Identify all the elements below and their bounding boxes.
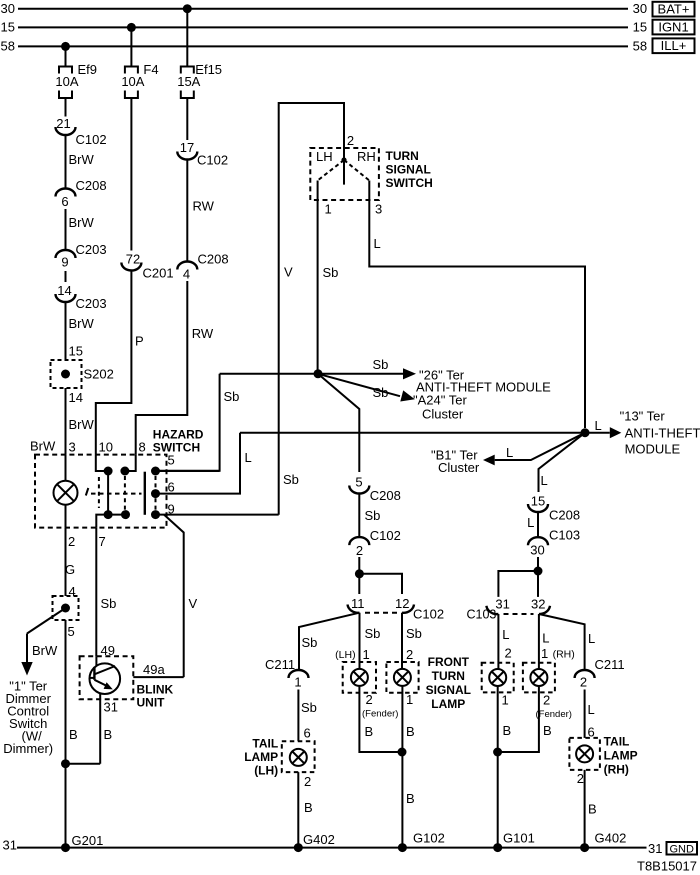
svg-text:LAMP: LAMP (604, 749, 638, 763)
svg-text:(LH): (LH) (254, 764, 278, 778)
svg-text:B: B (543, 723, 552, 738)
svg-text:30: 30 (1, 1, 15, 16)
svg-text:LAMP: LAMP (244, 750, 278, 764)
svg-text:V: V (189, 596, 198, 611)
svg-text:1: 1 (541, 646, 548, 661)
svg-text:(Fender): (Fender) (362, 709, 398, 720)
svg-text:Sb: Sb (224, 389, 240, 404)
svg-text:Sb: Sb (365, 508, 381, 523)
svg-text:Sb: Sb (373, 357, 389, 372)
svg-text:2: 2 (347, 133, 354, 148)
svg-text:TURN: TURN (432, 669, 465, 683)
svg-text:1: 1 (325, 202, 332, 217)
svg-text:C211: C211 (595, 657, 625, 672)
svg-text:9: 9 (61, 255, 68, 270)
svg-text:Sb: Sb (406, 626, 422, 641)
svg-text:(Fender): (Fender) (536, 709, 572, 720)
svg-text:G201: G201 (72, 833, 104, 848)
svg-text:7: 7 (99, 534, 106, 549)
svg-text:C201: C201 (143, 266, 174, 281)
svg-text:15: 15 (531, 494, 545, 509)
svg-text:G402: G402 (303, 832, 335, 847)
svg-text:"13" Ter: "13" Ter (620, 409, 666, 424)
svg-text:2: 2 (356, 543, 363, 558)
svg-text:BrW: BrW (69, 215, 95, 230)
svg-text:ANTI-THEFT: ANTI-THEFT (625, 426, 700, 441)
svg-text:32: 32 (531, 596, 545, 611)
svg-text:Cluster: Cluster (422, 407, 464, 422)
svg-text:B: B (104, 727, 113, 742)
svg-text:2: 2 (580, 675, 587, 690)
svg-text:B: B (304, 800, 313, 815)
svg-text:30: 30 (633, 1, 647, 16)
svg-text:L: L (542, 631, 549, 646)
svg-text:(LH): (LH) (335, 649, 355, 661)
svg-text:17: 17 (180, 140, 194, 155)
svg-text:L: L (527, 515, 534, 530)
svg-text:L: L (245, 450, 252, 465)
svg-text:14: 14 (69, 390, 83, 405)
svg-text:L: L (588, 702, 595, 717)
svg-text:RW: RW (193, 199, 215, 214)
svg-text:3: 3 (375, 202, 382, 217)
svg-text:Dimmer): Dimmer) (3, 741, 53, 756)
svg-text:L: L (588, 631, 595, 646)
svg-text:BrW: BrW (69, 316, 95, 331)
svg-text:FRONT: FRONT (428, 655, 470, 669)
svg-text:C208: C208 (370, 488, 401, 503)
svg-text:Sb: Sb (302, 635, 318, 650)
svg-text:6: 6 (304, 726, 311, 741)
svg-text:S202: S202 (84, 367, 114, 382)
svg-text:TURN: TURN (386, 149, 419, 163)
svg-text:2: 2 (406, 647, 413, 662)
svg-text:2: 2 (304, 774, 311, 789)
svg-text:6: 6 (61, 194, 68, 209)
svg-text:BrW: BrW (30, 439, 56, 454)
svg-text:1: 1 (406, 692, 413, 707)
svg-text:RW: RW (192, 326, 214, 341)
svg-text:2: 2 (543, 693, 550, 708)
svg-text:HAZARD: HAZARD (153, 428, 204, 442)
svg-text:C208: C208 (549, 508, 580, 523)
svg-text:BAT+: BAT+ (658, 2, 690, 17)
svg-text:49a: 49a (143, 662, 165, 677)
svg-text:T8B15017: T8B15017 (637, 859, 697, 874)
svg-text:L: L (506, 445, 513, 460)
svg-text:1: 1 (294, 675, 301, 690)
svg-text:V: V (284, 265, 293, 280)
svg-text:30: 30 (530, 543, 544, 558)
svg-text:5: 5 (168, 453, 175, 468)
svg-text:15: 15 (1, 20, 15, 35)
svg-text:SIGNAL: SIGNAL (386, 163, 431, 177)
svg-text:Cluster: Cluster (438, 460, 480, 475)
svg-text:31: 31 (3, 838, 17, 853)
svg-text:C211: C211 (265, 657, 295, 672)
svg-text:Sb: Sb (101, 596, 117, 611)
svg-text:LAMP: LAMP (431, 697, 465, 711)
svg-text:15A: 15A (177, 74, 200, 89)
svg-text:21: 21 (56, 116, 70, 131)
svg-text:C208: C208 (198, 252, 229, 267)
svg-text:SIGNAL: SIGNAL (426, 683, 471, 697)
svg-text:12: 12 (395, 596, 409, 611)
svg-text:Sb: Sb (323, 265, 339, 280)
svg-text:8: 8 (139, 440, 146, 455)
svg-text:6: 6 (168, 480, 175, 495)
svg-text:Sb: Sb (373, 385, 389, 400)
svg-text:31: 31 (104, 700, 118, 715)
svg-text:C103: C103 (467, 608, 497, 622)
svg-text:Sb: Sb (301, 700, 317, 715)
svg-text:3: 3 (69, 440, 76, 455)
svg-text:(RH): (RH) (604, 763, 629, 777)
svg-text:C102: C102 (413, 607, 444, 622)
svg-text:P: P (135, 334, 144, 349)
svg-text:B: B (406, 791, 415, 806)
svg-text:SWITCH: SWITCH (386, 176, 433, 190)
svg-text:31: 31 (648, 841, 662, 856)
svg-text:TAIL: TAIL (252, 737, 278, 751)
svg-text:72: 72 (126, 252, 140, 267)
svg-text:GND: GND (669, 843, 694, 855)
svg-text:Sb: Sb (283, 472, 299, 487)
svg-text:1: 1 (502, 693, 509, 708)
svg-text:58: 58 (1, 39, 15, 54)
svg-text:IGN1: IGN1 (658, 20, 688, 35)
svg-text:15: 15 (633, 20, 647, 35)
svg-text:1: 1 (363, 647, 370, 662)
svg-text:4: 4 (183, 267, 190, 282)
svg-text:10A: 10A (121, 74, 144, 89)
svg-text:Sb: Sb (365, 626, 381, 641)
svg-text:Ef9: Ef9 (78, 62, 98, 77)
svg-text:B: B (69, 727, 78, 742)
svg-text:B: B (503, 723, 512, 738)
svg-text:UNIT: UNIT (137, 696, 166, 710)
svg-text:L: L (541, 473, 548, 488)
svg-text:11: 11 (351, 596, 365, 611)
svg-text:F4: F4 (143, 62, 158, 77)
svg-text:G402: G402 (595, 831, 627, 846)
svg-text:SWITCH: SWITCH (153, 441, 200, 455)
svg-text:TAIL: TAIL (604, 735, 630, 749)
svg-text:C208: C208 (76, 178, 107, 193)
svg-text:G101: G101 (503, 831, 535, 846)
svg-text:2: 2 (68, 534, 75, 549)
svg-text:2: 2 (577, 771, 584, 786)
svg-text:2: 2 (505, 646, 512, 661)
svg-text:"A24" Ter: "A24" Ter (413, 393, 467, 408)
svg-text:L: L (374, 236, 381, 251)
svg-text:B: B (406, 724, 415, 739)
svg-text:14: 14 (57, 283, 71, 298)
svg-text:BrW: BrW (69, 152, 95, 167)
svg-text:5: 5 (355, 475, 362, 490)
svg-text:BrW: BrW (69, 417, 95, 432)
svg-text:MODULE: MODULE (625, 442, 681, 457)
svg-text:RH: RH (357, 149, 376, 164)
svg-text:C203: C203 (76, 296, 107, 311)
svg-text:G102: G102 (413, 831, 445, 846)
svg-text:C102: C102 (370, 528, 401, 543)
svg-text:5: 5 (68, 624, 75, 639)
svg-text:31: 31 (495, 597, 509, 612)
svg-text:L: L (595, 418, 602, 433)
svg-text:2: 2 (366, 692, 373, 707)
svg-text:C203: C203 (76, 242, 107, 257)
svg-text:G: G (65, 562, 75, 577)
svg-text:58: 58 (633, 39, 647, 54)
svg-text:ILL+: ILL+ (661, 38, 687, 53)
svg-text:10: 10 (99, 440, 113, 455)
svg-text:(RH): (RH) (553, 649, 575, 661)
svg-text:LH: LH (316, 149, 333, 164)
svg-text:10A: 10A (55, 74, 78, 89)
svg-text:15: 15 (69, 344, 83, 359)
svg-text:B: B (588, 802, 597, 817)
svg-text:C102: C102 (197, 153, 228, 168)
svg-text:L: L (502, 627, 509, 642)
svg-text:BLINK: BLINK (137, 683, 174, 697)
svg-text:BrW: BrW (32, 643, 58, 658)
svg-text:C103: C103 (549, 528, 580, 543)
svg-text:B: B (365, 724, 374, 739)
svg-text:C102: C102 (76, 132, 107, 147)
